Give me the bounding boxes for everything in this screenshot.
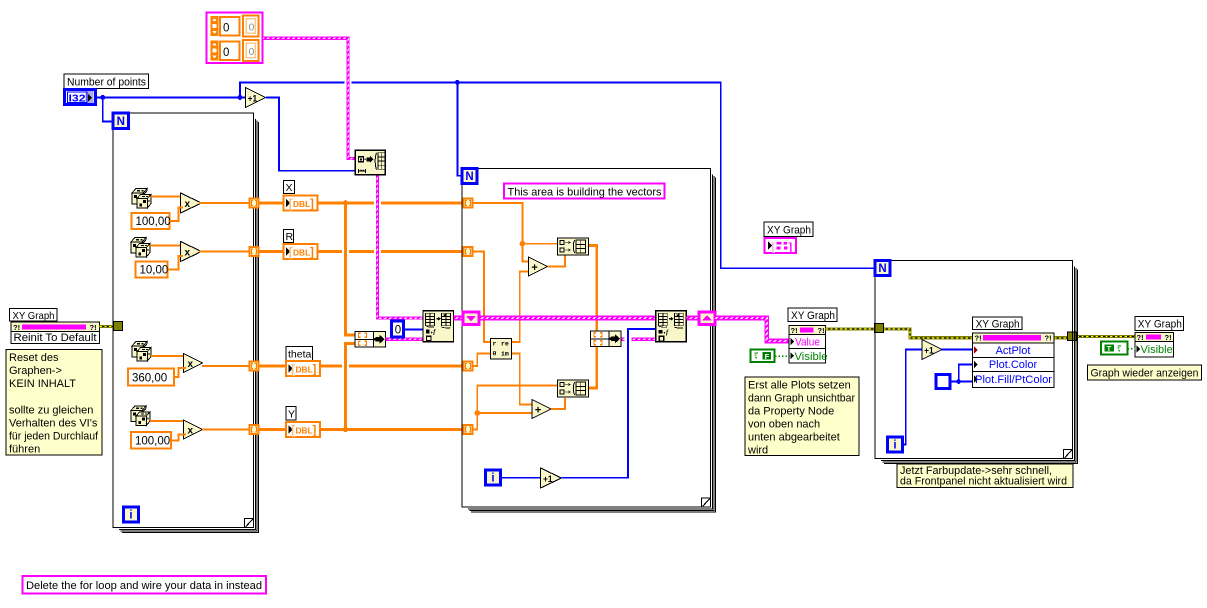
constant 0 (blue) bbox=[392, 321, 404, 337]
svg-text:0: 0 bbox=[395, 325, 401, 337]
svg-text:Value: Value bbox=[795, 337, 820, 349]
for loop 2 border (vector building) bbox=[462, 169, 716, 513]
wire multiply to tunnel R bbox=[199, 251, 250, 253]
svg-text:von oben nach: von oben nach bbox=[748, 419, 820, 431]
svg-text:XY Graph: XY Graph bbox=[13, 310, 55, 322]
control I32 Number of points bbox=[65, 90, 96, 105]
tunnel loop1 X bbox=[250, 199, 259, 208]
comment Jetzt Farbupdate bbox=[897, 464, 1073, 488]
svg-text:Visible: Visible bbox=[795, 351, 828, 363]
tunnel loop2 R bbox=[464, 247, 473, 256]
constant 360,00 bbox=[128, 369, 174, 386]
wire constant to multiply R bbox=[168, 256, 184, 270]
comment Reset des Graphen bbox=[6, 350, 102, 456]
wire theta inside loop2 bbox=[473, 354, 492, 367]
polar to complex node bbox=[491, 339, 512, 360]
wire i3 to increment (blue) bbox=[903, 350, 923, 445]
wire property node 2 to property node 3 (refnum) bbox=[1054, 336, 1068, 339]
tunnel loop2 theta bbox=[464, 362, 473, 371]
terminal XY Graph bbox=[765, 238, 797, 254]
svg-text:Delete the for loop and wire y: Delete the for loop and wire your data i… bbox=[26, 580, 262, 592]
wire multiply to tunnel X bbox=[199, 202, 250, 204]
bundle node 1 bbox=[355, 332, 386, 348]
wire tunnel to indicator X (orange array) bbox=[259, 202, 284, 205]
svg-text:theta: theta bbox=[288, 349, 312, 361]
for loop 1 count terminal N bbox=[113, 113, 129, 129]
svg-text:führen: führen bbox=[9, 444, 40, 456]
indicator Y DBL array bbox=[286, 422, 320, 438]
svg-text:da Frontpanel nicht aktualisie: da Frontpanel nicht aktualisiert wird bbox=[900, 476, 1067, 488]
label XY Graph property node 1 bbox=[788, 308, 837, 322]
svg-text:Reinit To Default: Reinit To Default bbox=[14, 332, 97, 344]
label X bbox=[284, 181, 295, 195]
junction orange Y bbox=[343, 427, 349, 433]
svg-text:?!: ?! bbox=[1045, 334, 1052, 343]
for loop 3 count terminal N bbox=[875, 261, 890, 276]
wire 0 to Replace Array Subset 1 (blue) bbox=[404, 329, 424, 331]
wire indicator R to loop2 tunnel (orange array) bbox=[318, 250, 464, 253]
svg-text:XY Graph: XY Graph bbox=[791, 310, 835, 322]
wire constant to multiply theta bbox=[174, 368, 186, 377]
Initialize Array node bbox=[355, 150, 385, 175]
label XY Graph terminal bbox=[764, 222, 813, 237]
random dice X bbox=[132, 189, 151, 209]
wire invoke node to loop1 tunnel (refnum) bbox=[100, 325, 115, 328]
wire im to add2 bbox=[512, 354, 532, 405]
wire True to Visible (green) bbox=[1128, 348, 1136, 350]
property node XY Graph Visible bbox=[1135, 333, 1174, 358]
svg-text:XY Graph: XY Graph bbox=[767, 224, 811, 236]
random dice R bbox=[131, 238, 150, 258]
svg-text:Reset des: Reset des bbox=[9, 352, 59, 364]
svg-text:Erst alle Plots setzen: Erst alle Plots setzen bbox=[748, 380, 851, 392]
svg-text:x: x bbox=[185, 247, 191, 258]
comment Erst alle Plots setzen bbox=[745, 377, 859, 457]
tunnel loop2 Y bbox=[464, 425, 473, 434]
wire indicator Y to loop2 tunnel (orange array) bbox=[320, 428, 464, 431]
svg-text:re: re bbox=[501, 341, 509, 348]
svg-text:x: x bbox=[185, 199, 191, 210]
multiply R bbox=[181, 242, 202, 262]
wire color box to Plot.Color / Plot.Fill (blue) bbox=[950, 381, 973, 383]
wire bundle1 to Replace Array Subset 1 (magenta) bbox=[386, 338, 424, 341]
label XY Graph property node 2 bbox=[973, 317, 1023, 330]
svg-text:Visible: Visible bbox=[1141, 344, 1173, 356]
svg-text:N: N bbox=[117, 116, 125, 128]
svg-text:x: x bbox=[188, 425, 194, 436]
label Y bbox=[286, 407, 296, 421]
svg-text:0: 0 bbox=[223, 47, 229, 59]
wire add1 to build array 1 bbox=[548, 256, 565, 267]
wire re to add1 bbox=[516, 313, 523, 323]
Replace Array Subset 2 bbox=[656, 311, 687, 342]
indicator R DBL array bbox=[284, 244, 318, 260]
svg-text:sollte zu gleichen: sollte zu gleichen bbox=[9, 404, 93, 416]
wire X inside loop2 bbox=[473, 203, 530, 262]
random dice theta bbox=[132, 342, 151, 362]
svg-text:?!: ?! bbox=[818, 326, 825, 335]
multiply theta bbox=[184, 354, 203, 373]
wire increment to ActPlot (blue) bbox=[942, 349, 974, 351]
label XY Graph (invoke) bbox=[10, 309, 58, 322]
wire multiply to tunnel Y bbox=[202, 429, 250, 431]
svg-text:]: ] bbox=[789, 242, 793, 254]
svg-text:XY Graph: XY Graph bbox=[976, 318, 1020, 330]
tunnel loop1 theta bbox=[250, 362, 259, 371]
svg-text:ActPlot: ActPlot bbox=[996, 345, 1031, 357]
svg-text:I32: I32 bbox=[69, 94, 87, 105]
wire increment to Replace2 (blue) bbox=[625, 335, 632, 344]
tunnel loop1 Y bbox=[250, 425, 259, 434]
svg-text:]: ] bbox=[313, 364, 317, 376]
svg-text:XY Graph: XY Graph bbox=[1138, 318, 1182, 330]
svg-text:DBL: DBL bbox=[293, 199, 310, 209]
svg-text:?!: ?! bbox=[1165, 333, 1172, 342]
svg-text:für jeden Durchlauf: für jeden Durchlauf bbox=[9, 431, 99, 443]
wire multiply to tunnel theta bbox=[202, 365, 250, 367]
svg-text:im: im bbox=[501, 351, 509, 358]
for loop 2 iteration terminal i bbox=[486, 470, 501, 485]
wire indicator theta to loop2 tunnel (orange array) bbox=[320, 365, 464, 368]
wire X branch down to bundle bbox=[342, 248, 349, 255]
svg-text:?!: ?! bbox=[13, 323, 20, 332]
random dice Y bbox=[131, 406, 150, 426]
svg-text:i: i bbox=[129, 510, 132, 522]
wire dice to multiply X bbox=[151, 196, 182, 198]
increment +1 inner bbox=[541, 468, 562, 488]
svg-text:R: R bbox=[286, 231, 294, 243]
wire Y branch up to bundle bbox=[346, 344, 356, 430]
constant True (green) bbox=[1101, 342, 1128, 355]
svg-text:]: ] bbox=[313, 425, 317, 437]
wire I32 to increment and loops (blue) bbox=[96, 96, 245, 98]
svg-text:]: ] bbox=[310, 199, 314, 211]
multiply X bbox=[181, 193, 202, 213]
constant 100,00 bbox=[131, 432, 171, 449]
wire tunnel to indicator Y (orange array) bbox=[259, 428, 287, 431]
svg-text:+1: +1 bbox=[543, 474, 553, 485]
constant 10,00 bbox=[136, 262, 169, 278]
svg-text:N: N bbox=[465, 171, 473, 183]
shift register left bbox=[463, 312, 479, 325]
svg-text:unten abgearbeitet: unten abgearbeitet bbox=[748, 432, 840, 444]
add node 1 bbox=[529, 257, 548, 276]
svg-text:da Property Node: da Property Node bbox=[748, 406, 834, 418]
wire indicator X to loop2 tunnel (orange array) bbox=[318, 202, 464, 205]
svg-text:?!: ?! bbox=[791, 326, 798, 335]
svg-text:DBL: DBL bbox=[296, 365, 313, 375]
add node 2 bbox=[532, 400, 551, 419]
svg-text:]: ] bbox=[310, 247, 314, 259]
junction blue 3 bbox=[455, 80, 460, 85]
junction blue color bbox=[956, 379, 961, 384]
for loop 3 border (color update) bbox=[875, 261, 1078, 464]
junction Y inner bbox=[475, 410, 481, 416]
svg-text:+: + bbox=[535, 404, 541, 416]
refnum tunnel loop3 left bbox=[875, 324, 884, 333]
junction blue 2 bbox=[238, 95, 243, 100]
svg-text:360,00: 360,00 bbox=[132, 373, 167, 385]
wire dice to multiply Y bbox=[150, 420, 185, 422]
svg-text:i: i bbox=[893, 440, 896, 452]
svg-text:T: T bbox=[1107, 344, 1112, 353]
svg-text:Graphen->: Graphen-> bbox=[9, 365, 62, 377]
svg-text:+1: +1 bbox=[924, 346, 934, 357]
wire constant to multiply X bbox=[170, 208, 184, 222]
wire Initialize Array to Replace Array Subset 1 (magenta) bbox=[374, 198, 381, 208]
comment Graph wieder anzeigen bbox=[1088, 365, 1202, 380]
property node XY Graph ActPlot/Plot.Color/Plot.Fill bbox=[973, 333, 1055, 388]
label This area is building the vectors bbox=[504, 184, 665, 199]
svg-text:0: 0 bbox=[249, 46, 255, 58]
for loop 1 iteration terminal i bbox=[124, 507, 139, 522]
invoke node Reinit To Default bbox=[11, 322, 100, 344]
junction blue 1 bbox=[100, 95, 105, 100]
label R bbox=[284, 230, 294, 244]
svg-text:0: 0 bbox=[249, 22, 255, 34]
svg-text:i: i bbox=[491, 473, 494, 485]
property node XY Graph Value/Visible bbox=[789, 326, 828, 364]
for loop 1 border (data generation) bbox=[113, 113, 259, 533]
svg-text:DBL: DBL bbox=[296, 426, 313, 436]
indicator X DBL array bbox=[284, 196, 318, 212]
wire tunnel to indicator theta (orange array) bbox=[259, 365, 287, 368]
wire +1 to Initialize Array dimension (blue) bbox=[266, 97, 355, 170]
svg-text:Graph wieder anzeigen: Graph wieder anzeigen bbox=[1091, 368, 1199, 380]
svg-text:KEIN INHALT: KEIN INHALT bbox=[9, 378, 76, 390]
bundle node 2 bbox=[591, 331, 622, 347]
svg-text:?!: ?! bbox=[975, 334, 982, 343]
svg-text:r: r bbox=[493, 341, 497, 348]
wire i2 to increment bbox=[501, 477, 542, 479]
wire property node 1 to property node 2 (refnum) bbox=[826, 329, 974, 338]
wire loop2 output to property node Value (magenta) bbox=[715, 318, 791, 341]
svg-text:x: x bbox=[188, 359, 194, 370]
wire R inside loop2 bbox=[481, 313, 488, 323]
wire Y inside loop2 bbox=[473, 413, 533, 430]
svg-text:?!: ?! bbox=[1137, 333, 1144, 342]
wire add2 to build array 2 bbox=[551, 398, 565, 409]
svg-text:10,00: 10,00 bbox=[140, 265, 169, 277]
wire Replace2 to shift register right (magenta) bbox=[687, 316, 700, 321]
constant 100,00 bbox=[132, 213, 171, 229]
wire build array 1 to bundle2 (orange array) bbox=[593, 313, 600, 323]
svg-text:0: 0 bbox=[223, 23, 229, 35]
label theta bbox=[286, 347, 313, 361]
svg-text:Number of points: Number of points bbox=[67, 76, 146, 88]
svg-text:dann Graph unsichtbar: dann Graph unsichtbar bbox=[748, 393, 855, 405]
wire build array 2 to bundle2 (orange array) bbox=[589, 347, 597, 389]
wire bundle2 to Replace2 (magenta) bbox=[622, 338, 656, 341]
svg-text:F: F bbox=[765, 352, 770, 361]
cluster constant (2 empty DBL arrays) bbox=[207, 13, 263, 64]
svg-text:Plot.Color: Plot.Color bbox=[989, 359, 1038, 371]
svg-text:?!: ?! bbox=[90, 323, 97, 332]
tunnel loop1 R bbox=[250, 247, 259, 256]
indicator theta DBL array bbox=[286, 361, 320, 377]
svg-text:wird: wird bbox=[747, 445, 768, 457]
svg-text:+: + bbox=[531, 262, 537, 274]
label Delete the for loop bbox=[23, 576, 267, 594]
svg-text:100,00: 100,00 bbox=[136, 216, 171, 228]
increment +1 top bbox=[246, 88, 266, 108]
wire Replace1 to shift register (magenta) bbox=[454, 316, 464, 321]
svg-text:+1: +1 bbox=[248, 93, 258, 104]
junction orange X bbox=[343, 200, 349, 206]
label XY Graph property node 3 bbox=[1135, 316, 1184, 330]
svg-text:Y: Y bbox=[288, 408, 295, 420]
svg-text:Plot.Fill/PtColor: Plot.Fill/PtColor bbox=[975, 374, 1052, 386]
Replace Array Subset 1 bbox=[423, 311, 454, 342]
svg-text:100,00: 100,00 bbox=[135, 436, 170, 448]
wire cluster to Initialize Array (magenta) bbox=[263, 38, 355, 158]
refnum tunnel loop3 right bbox=[1068, 332, 1077, 341]
constant False (green) bbox=[751, 350, 775, 363]
refnum tunnel loop1 bbox=[114, 322, 123, 331]
label Number of points bbox=[64, 74, 149, 89]
wire constant to multiply Y bbox=[171, 435, 186, 441]
wire shift register to Replace2 (magenta trunk) bbox=[479, 316, 655, 321]
svg-text:Verhalten des VI's: Verhalten des VI's bbox=[9, 418, 98, 430]
for loop 2 count terminal N bbox=[462, 169, 477, 184]
svg-text:θ: θ bbox=[493, 351, 497, 358]
tunnel loop2 X bbox=[464, 199, 473, 208]
multiply Y bbox=[184, 420, 203, 439]
wire dice to multiply R bbox=[150, 245, 182, 247]
svg-text:This area is building the vect: This area is building the vectors bbox=[508, 186, 662, 198]
svg-text:N: N bbox=[878, 263, 886, 275]
wire dice to multiply theta bbox=[151, 355, 185, 357]
svg-text:X: X bbox=[286, 182, 293, 194]
wire False to Visible (green) bbox=[775, 355, 790, 357]
svg-text:[: [ bbox=[772, 242, 776, 254]
build array 1 bbox=[558, 238, 589, 255]
shift register right bbox=[699, 312, 715, 325]
wire tunnel to indicator R (orange array) bbox=[259, 250, 284, 253]
junction X inner bbox=[520, 241, 526, 247]
svg-text:DBL: DBL bbox=[293, 248, 310, 258]
for loop 3 iteration terminal i bbox=[888, 437, 903, 452]
increment +1 loop3 bbox=[922, 340, 942, 360]
color box constant bbox=[936, 375, 950, 389]
build array 2 bbox=[558, 380, 589, 397]
